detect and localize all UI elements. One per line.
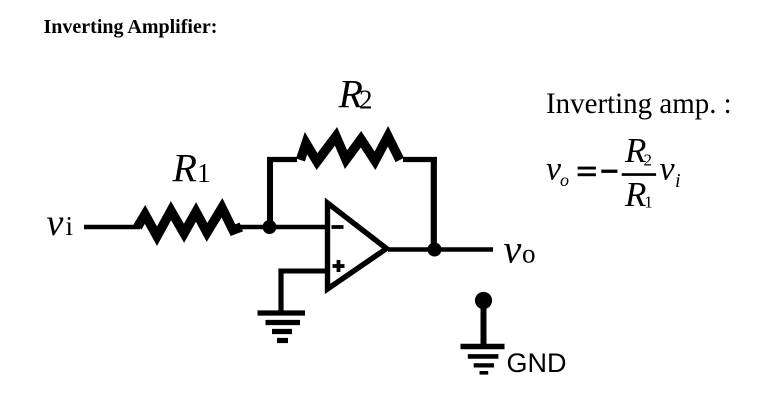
svg-text:2: 2: [359, 85, 373, 115]
label R2: [338, 72, 373, 117]
wire feedback left vertical: [267, 157, 273, 229]
svg-text:1: 1: [644, 192, 653, 211]
resistor R2: [296, 126, 404, 170]
wire input vi to R1: [84, 225, 140, 230]
op-amp inverting pin label (minus): [332, 225, 344, 229]
node GND terminal dot: [475, 292, 492, 309]
svg-text:v: v: [660, 151, 676, 188]
heading Inverting amp.: [546, 86, 732, 122]
svg-text:1: 1: [197, 158, 211, 188]
wire non-inverting input: [281, 269, 325, 274]
svg-text:GND: GND: [507, 348, 567, 378]
label vi: [47, 202, 74, 244]
node A: junction of R1, feedback, inverting input: [263, 220, 277, 234]
svg-text:o: o: [560, 170, 569, 190]
svg-text:2: 2: [644, 151, 653, 170]
wire GND vertical: [481, 303, 487, 344]
wire feedback top right: [403, 157, 437, 162]
formula vo = -R2/R1 vi: [546, 131, 681, 214]
svg-text:o: o: [522, 239, 536, 269]
svg-text:v: v: [504, 227, 522, 272]
svg-text:i: i: [66, 211, 74, 241]
ground GND: [461, 347, 505, 373]
label R1: [172, 146, 211, 191]
wire R1 to inverting input: [236, 225, 326, 230]
ground (non-inverting input): [258, 313, 306, 341]
wire output: [388, 247, 493, 252]
wire plus input down to ground: [278, 269, 283, 314]
svg-text:i: i: [675, 170, 681, 192]
wire feedback right vertical: [431, 157, 437, 250]
resistor R1: [134, 198, 244, 246]
op-amp U1: [328, 203, 387, 289]
node B: output junction: [428, 243, 442, 257]
svg-text:v: v: [47, 202, 64, 244]
wire feedback top left: [267, 157, 297, 162]
title text: [44, 15, 218, 39]
label vo: [504, 227, 536, 272]
svg-text:R: R: [172, 146, 197, 191]
op-amp non-inverting pin label (plus): [333, 260, 345, 272]
svg-text:R: R: [624, 175, 646, 214]
